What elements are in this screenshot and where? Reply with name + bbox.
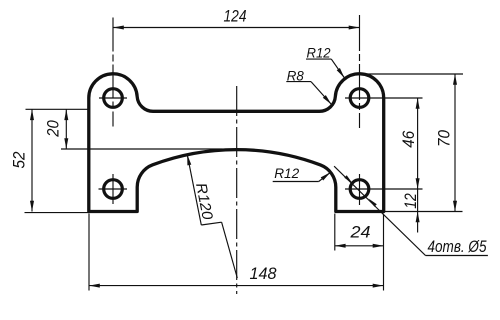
- svg-text:4отв. Ø5: 4отв. Ø5: [428, 237, 487, 256]
- svg-text:46: 46: [399, 130, 418, 147]
- svg-text:12: 12: [401, 193, 420, 209]
- svg-text:70: 70: [435, 130, 454, 147]
- svg-text:20: 20: [44, 120, 63, 138]
- svg-text:R12: R12: [307, 45, 331, 61]
- svg-text:R8: R8: [287, 67, 304, 83]
- svg-text:148: 148: [250, 264, 278, 283]
- svg-text:24: 24: [349, 223, 370, 242]
- svg-text:124: 124: [224, 7, 247, 26]
- svg-text:R12: R12: [274, 165, 299, 181]
- svg-text:52: 52: [10, 151, 29, 168]
